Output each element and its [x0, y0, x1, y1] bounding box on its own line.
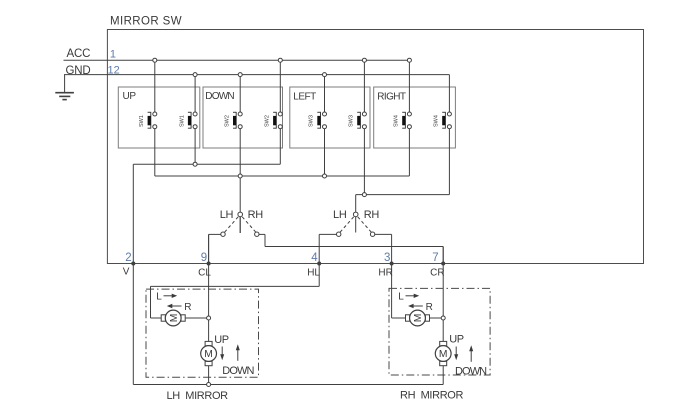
svg-text:RIGHT: RIGHT [377, 92, 406, 103]
junction SW3b feed [362, 193, 366, 197]
svg-text:4: 4 [311, 252, 318, 264]
junction on ACC rail at SW2b [278, 58, 282, 62]
wire ACC to SW3b [363, 60, 365, 112]
svg-text:SW3: SW3 [349, 115, 355, 127]
wire SW4b bottom [448, 129, 450, 195]
wire SW3a bottom [324, 129, 326, 176]
junction CL at LH M1 [207, 316, 211, 320]
junction CR at RH M1 [441, 316, 445, 320]
svg-text:UP: UP [123, 91, 137, 102]
label HR [378, 268, 392, 279]
switch SW4a [394, 112, 412, 129]
pin 7 number [432, 252, 438, 264]
svg-text:UP: UP [214, 334, 229, 346]
pin 7 dot node CR [441, 262, 445, 266]
label DOWN [205, 91, 234, 102]
label UP RH [449, 333, 464, 345]
label RIGHT [377, 92, 406, 103]
svg-text:CL: CL [198, 268, 211, 279]
wire GND to SW4b [448, 75, 450, 112]
svg-text:RH: RH [364, 209, 380, 221]
svg-text:SW3: SW3 [309, 115, 315, 127]
svg-text:HR: HR [378, 268, 392, 279]
selector1 dashed throw LH [225, 217, 239, 232]
svg-text:HL: HL [307, 268, 320, 279]
selector2 dashed throw RH [358, 217, 372, 232]
svg-text:DOWN: DOWN [222, 365, 254, 377]
label L arrow right [156, 291, 177, 302]
label MIRROR SW [110, 16, 182, 28]
pin 9 dot node CL [207, 262, 211, 266]
switch box RIGHT [374, 87, 456, 148]
svg-text:V: V [123, 267, 130, 278]
selector2 pivot [353, 212, 358, 217]
svg-text:RH MIRROR: RH MIRROR [400, 389, 464, 401]
svg-text:SW1: SW1 [139, 115, 145, 127]
selector2 dashed throw LH [340, 217, 354, 232]
wire selector1 LH contact to pin 9 [209, 234, 221, 263]
junction on GND rail at SW3a [323, 73, 327, 77]
svg-text:7: 7 [432, 252, 438, 264]
svg-text:SW4: SW4 [434, 115, 440, 127]
label DOWN RH [455, 365, 487, 377]
svg-text:RH: RH [248, 209, 264, 221]
pin 2 number [125, 252, 131, 264]
pin 3 number [384, 252, 390, 264]
svg-text:GND: GND [66, 65, 91, 77]
label CL [198, 268, 211, 279]
wire SW2a bottom to selector1 [239, 129, 241, 233]
svg-text:R: R [184, 302, 191, 313]
wire GND to SW3a [324, 75, 326, 112]
label V [123, 267, 130, 278]
svg-text:12: 12 [108, 65, 120, 77]
wire node CL vertical [208, 234, 210, 341]
wire pin4 HL feed to LH motor M1 [151, 286, 320, 318]
wire ACC rail [64, 59, 410, 61]
wire node V horizontal (line1) [133, 163, 280, 165]
switch SW1a [139, 112, 157, 129]
pin 9 number [201, 252, 207, 264]
junction line1 SW1b [193, 162, 197, 166]
svg-text:LH MIRROR: LH MIRROR [167, 390, 229, 402]
selector2 contact LH [337, 232, 341, 236]
junction line2 SW2a [238, 174, 242, 178]
label ACC [67, 48, 91, 60]
wire GND rail [64, 74, 449, 76]
wire selector2 feed horizontal [356, 194, 450, 196]
motor LH M2 vertical [201, 341, 217, 365]
wire SW3b bottom [363, 129, 365, 195]
switch SW1b [179, 112, 197, 129]
svg-text:DOWN: DOWN [205, 91, 234, 102]
svg-text:CR: CR [430, 268, 444, 279]
label L arrow right RH [398, 291, 419, 302]
wire pin3 HR feed to RH motor M1 [392, 317, 406, 319]
svg-text:L: L [156, 291, 162, 302]
pin 4 dot node HL [317, 262, 321, 266]
switch SW3b [349, 112, 367, 129]
pin 12 [108, 65, 120, 77]
selector1 stem [239, 214, 241, 233]
switch SW2a [224, 112, 242, 129]
pin 3 dot node HR [390, 262, 394, 266]
switch box DOWN [203, 87, 283, 148]
svg-text:SW1: SW1 [179, 115, 185, 127]
pin 4 number [311, 252, 318, 264]
wire GND to SW1b [194, 75, 196, 112]
svg-text:UP: UP [449, 333, 464, 345]
svg-text:M: M [439, 349, 448, 360]
svg-text:2: 2 [125, 252, 131, 264]
svg-text:ACC: ACC [67, 48, 91, 60]
wire selector2 RH contact to pin 3 [375, 234, 392, 318]
label selector1 LH [220, 209, 234, 221]
label R arrow left RH [408, 302, 433, 313]
selector2 contact RH [370, 232, 374, 236]
wire common horizontal (line2) [155, 175, 410, 177]
arrow up LH [236, 344, 240, 361]
terminal on ACC rail end at SW4a [407, 58, 411, 62]
wire RH M1 to node CR [430, 317, 443, 319]
wire SW2b bottom [279, 129, 281, 165]
svg-text:R: R [426, 302, 433, 313]
svg-text:SW2: SW2 [265, 115, 271, 127]
motor RH M1 horizontal [406, 310, 430, 326]
svg-text:M: M [413, 314, 424, 323]
junction line2 SW3a [323, 174, 327, 178]
wire GND to SW2a [239, 75, 241, 112]
arrow down RH [454, 347, 458, 361]
pin 1 [110, 49, 116, 61]
junction on GND rail at SW2a [238, 73, 242, 77]
label DOWN LH [222, 365, 254, 377]
ground [55, 75, 74, 100]
svg-text:9: 9 [201, 252, 207, 264]
label LH MIRROR [167, 390, 229, 402]
switch box LEFT [290, 87, 370, 148]
wire LH M1 to node CL [186, 317, 209, 319]
wire SW1a bottom [154, 129, 156, 176]
svg-text:LEFT: LEFT [293, 92, 316, 103]
wire node V down and across [133, 164, 443, 384]
wire SW4a bottom [408, 129, 410, 176]
svg-text:M: M [169, 314, 180, 323]
RH mirror dashed box [389, 288, 490, 375]
switch box UP [118, 87, 200, 148]
svg-text:M: M [204, 349, 213, 360]
label R arrow left [167, 302, 192, 313]
switch SW3a [309, 112, 327, 129]
svg-text:1: 1 [110, 49, 116, 61]
label HL [307, 268, 320, 279]
wire node CR vertical [442, 247, 444, 342]
wire selector1 RH contact to pin 7 [259, 234, 443, 263]
svg-text:LH: LH [220, 209, 234, 221]
wire selector2 LH contact to pin 4 [319, 234, 336, 286]
label UP [123, 91, 137, 102]
svg-text:SW2: SW2 [224, 115, 230, 127]
wire ACC to SW2b [279, 60, 281, 112]
switch SW2b [265, 112, 283, 129]
wire ACC to SW4a [408, 60, 410, 112]
junction node V at LH M2 [207, 383, 211, 387]
motor RH M2 vertical [435, 341, 451, 365]
switch SW4b [434, 112, 452, 129]
selector1 pivot [238, 212, 243, 217]
arrow down LH [220, 347, 224, 361]
wire SW1b bottom [194, 129, 196, 165]
label selector2 RH [364, 209, 380, 221]
wire ACC to SW1a [154, 60, 156, 112]
arrow up RH [469, 345, 473, 362]
selector1 dashed throw RH [242, 217, 256, 232]
svg-text:LH: LH [333, 209, 347, 221]
wire LH M2 bottom to node V [208, 366, 210, 385]
selector1 contact RH [255, 232, 259, 236]
label selector2 LH [333, 209, 347, 221]
label GND [66, 65, 91, 77]
label UP LH [214, 334, 229, 346]
selector1 contact LH [221, 232, 225, 236]
label RH MIRROR [400, 389, 464, 401]
label LEFT [293, 92, 316, 103]
wire RH M2 bottom to node V [442, 366, 444, 385]
mirror switch outer box [107, 30, 643, 264]
svg-text:L: L [398, 291, 404, 302]
svg-text:3: 3 [384, 252, 390, 264]
junction on ACC rail at SW3b [362, 58, 366, 62]
label selector1 RH [248, 209, 264, 221]
LH mirror dashed box [146, 289, 259, 377]
svg-text:DOWN: DOWN [455, 365, 487, 377]
svg-text:MIRROR SW: MIRROR SW [110, 16, 182, 28]
motor LH M1 horizontal [161, 310, 185, 326]
label CR [430, 268, 444, 279]
junction on ACC rail at SW1a [153, 58, 157, 62]
selector2 stem [355, 195, 357, 233]
svg-text:SW4: SW4 [394, 115, 400, 127]
pin 2 dot node V [131, 262, 135, 266]
junction on GND rail at SW1b [193, 73, 197, 77]
